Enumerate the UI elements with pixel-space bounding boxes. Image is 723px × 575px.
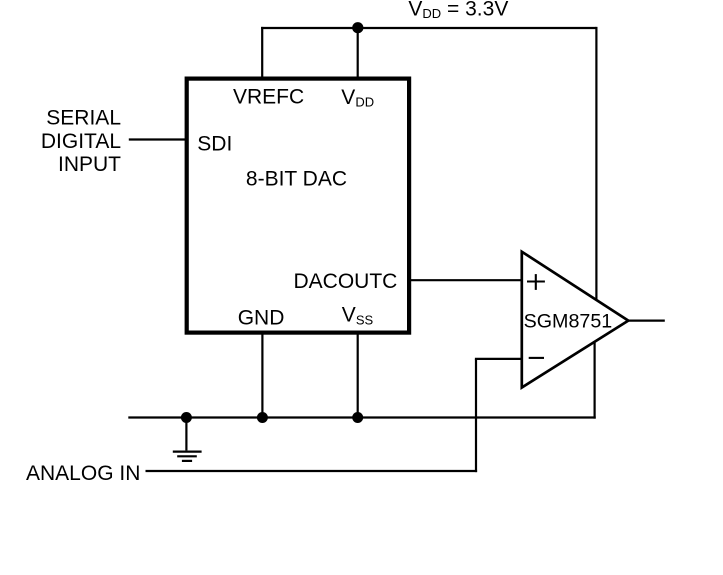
wire: VDD 3.3V top rail xyxy=(261,27,596,29)
svg-text:SERIAL: SERIAL xyxy=(46,107,121,130)
wire: SDI input xyxy=(129,138,188,140)
wire: VREFC pin up to VDD rail xyxy=(261,27,263,78)
svg-text:VDD = 3.3V: VDD = 3.3V xyxy=(408,0,508,21)
wire: VDD rail down to op-amp V+ supply xyxy=(595,27,597,300)
op-amp - input symbol xyxy=(529,357,544,359)
8-bit DAC block U1 xyxy=(187,79,409,333)
svg-text:SDI: SDI xyxy=(197,133,232,156)
svg-text:GND: GND xyxy=(238,307,285,330)
wire: op-amp output xyxy=(628,320,665,322)
ground symbol xyxy=(173,418,202,461)
wire: ANALOG IN line xyxy=(146,470,478,472)
svg-text:DIGITAL: DIGITAL xyxy=(41,130,121,153)
wire: GND pin down to ground rail xyxy=(261,333,263,418)
op-amp + input symbol xyxy=(527,274,545,290)
wire: VSS pin down to ground rail xyxy=(357,333,359,418)
svg-text:8-BIT DAC: 8-BIT DAC xyxy=(246,168,347,191)
svg-text:INPUT: INPUT xyxy=(58,153,121,176)
junction: ground rail / ground symbol xyxy=(181,412,192,423)
wire: VDD pin up to rail xyxy=(357,27,359,78)
svg-text:ANALOG IN: ANALOG IN xyxy=(26,462,140,485)
junction: VDD rail / VDD pin xyxy=(352,22,363,33)
op-amp U2 triangle xyxy=(522,252,629,388)
junction: ground rail / GND pin xyxy=(257,412,268,423)
wire: op-amp V- supply down to ground rail xyxy=(593,342,595,419)
svg-text:VREFC: VREFC xyxy=(233,86,304,109)
wire: DACOUTC to op-amp + input xyxy=(409,279,522,281)
svg-text:DACOUTC: DACOUTC xyxy=(294,270,398,293)
svg-text:SGM8751: SGM8751 xyxy=(524,311,613,333)
wire: op-amp - input lead xyxy=(475,358,522,360)
wire: analog riser up to op-amp - input xyxy=(475,359,477,472)
ground rail xyxy=(128,416,595,418)
junction: ground rail / VSS pin xyxy=(352,412,363,423)
